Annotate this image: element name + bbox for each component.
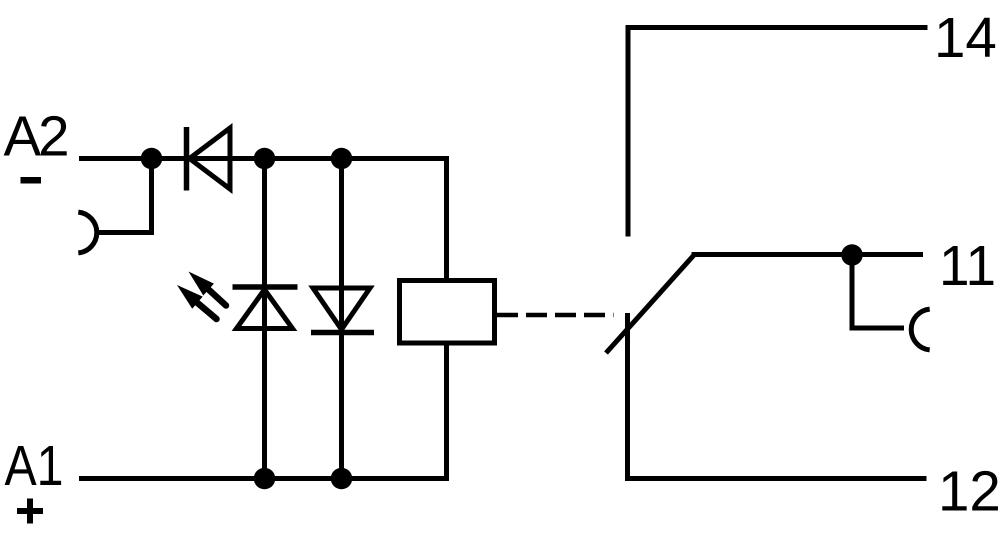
- svg-text:12: 12: [938, 460, 1000, 523]
- svg-text:A2: A2: [4, 105, 68, 168]
- svg-text:A1: A1: [5, 434, 64, 497]
- svg-text:11: 11: [939, 234, 996, 297]
- svg-text:14: 14: [934, 6, 997, 69]
